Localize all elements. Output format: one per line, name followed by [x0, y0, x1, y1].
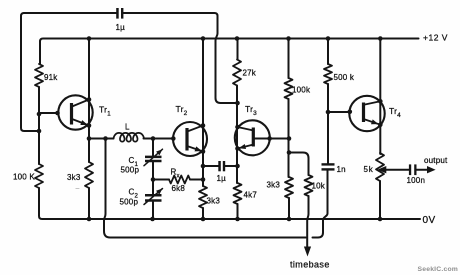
svg-text:27k: 27k — [243, 69, 257, 78]
svg-text:4k7: 4k7 — [244, 191, 258, 200]
svg-text:500p: 500p — [120, 198, 139, 207]
svg-text:L: L — [125, 123, 130, 132]
svg-text:3k3: 3k3 — [67, 173, 81, 182]
svg-text:500 k: 500 k — [334, 73, 355, 82]
svg-text:5k: 5k — [364, 165, 374, 174]
svg-text:10k: 10k — [312, 182, 326, 191]
svg-text:100 K: 100 K — [13, 173, 35, 182]
svg-text:3k3: 3k3 — [207, 197, 221, 206]
svg-text:100n: 100n — [407, 176, 426, 185]
svg-text:SeekIC.com: SeekIC.com — [418, 266, 459, 273]
svg-text:output: output — [424, 156, 448, 165]
svg-text:–: – — [76, 186, 80, 193]
svg-text:1µ: 1µ — [217, 174, 227, 183]
svg-text:100k: 100k — [292, 86, 311, 95]
svg-text:1n: 1n — [337, 165, 346, 174]
svg-text:3k3: 3k3 — [267, 181, 281, 190]
svg-text:timebase: timebase — [290, 260, 330, 270]
svg-text:1µ: 1µ — [116, 23, 126, 32]
svg-text:91k: 91k — [44, 73, 58, 82]
svg-text:500p: 500p — [121, 166, 140, 175]
svg-text:6k8: 6k8 — [172, 184, 186, 193]
svg-text:+12 V: +12 V — [423, 33, 448, 43]
svg-text:0V: 0V — [423, 215, 436, 226]
